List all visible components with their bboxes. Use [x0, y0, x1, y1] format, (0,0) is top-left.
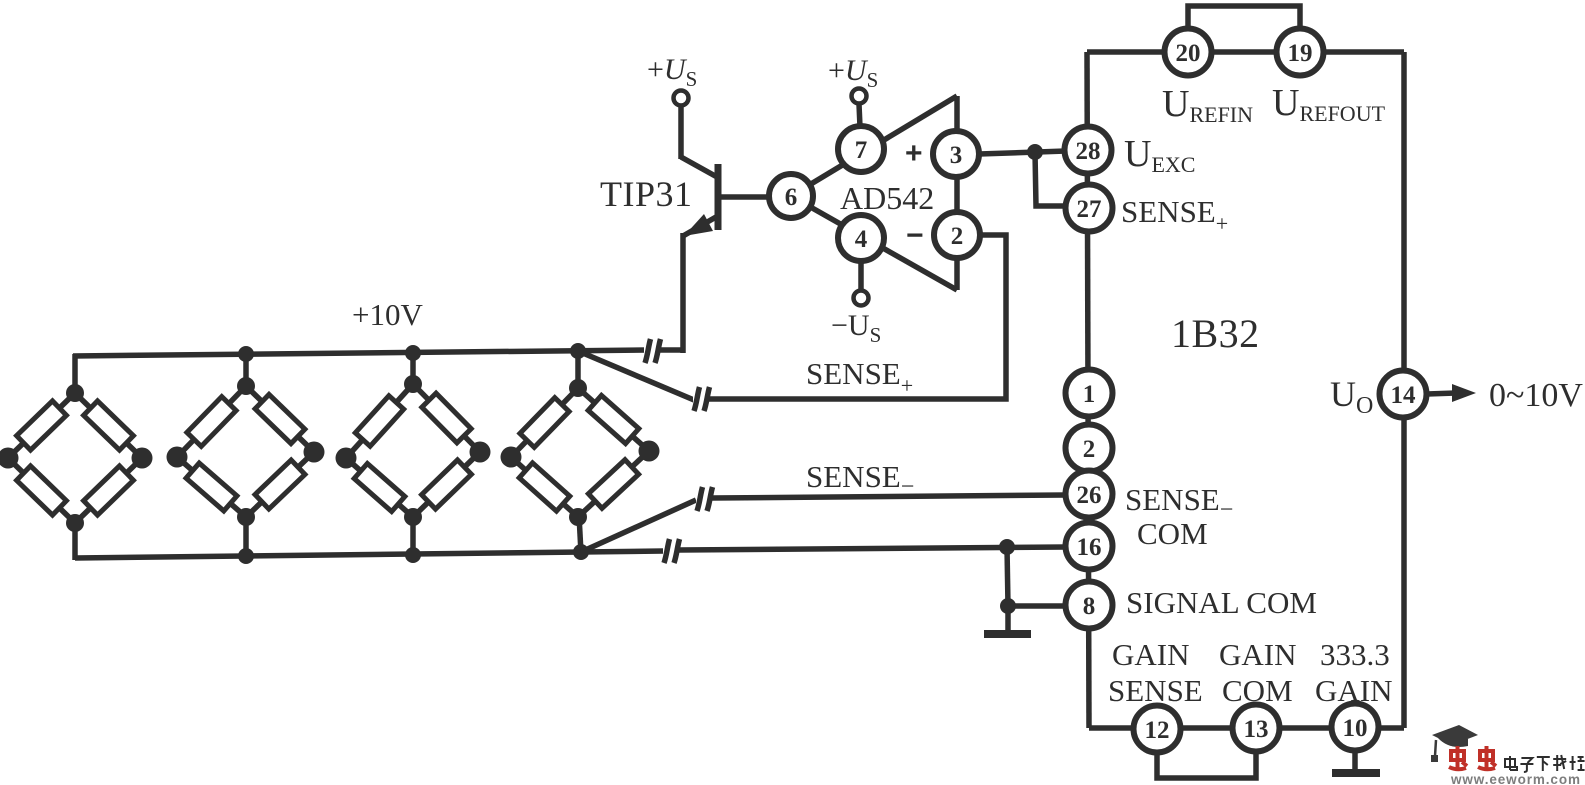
pin 13 GAIN COM	[1233, 705, 1280, 752]
pin 10 GAIN	[1332, 704, 1379, 751]
svg-text:20: 20	[1176, 40, 1201, 67]
svg-text:2: 2	[951, 223, 964, 250]
svg-text:12: 12	[1145, 717, 1170, 744]
pin 27 SENSE+	[1066, 185, 1113, 232]
node output junction	[1027, 144, 1043, 160]
wire bridge B2 top stub	[243, 353, 249, 388]
wire external loop pin20-pin19	[1188, 6, 1300, 30]
cable break on COM	[663, 539, 680, 563]
wire down to ground	[1005, 606, 1011, 632]
svg-text:1: 1	[1083, 381, 1096, 408]
resistor B2 top-left arm	[187, 397, 236, 447]
resistor B1 top-right arm	[84, 401, 134, 450]
wire output arrow from pin 14	[1427, 393, 1456, 394]
wire strap junction to pin 27	[1035, 152, 1066, 206]
wire op-amp output (pin3) to UEXC pin 28	[979, 151, 1066, 154]
svg-text:2: 2	[1083, 436, 1096, 463]
terminal +Us (op-amp V+)	[852, 89, 867, 104]
svg-text:+: +	[905, 137, 923, 170]
resistor B1 top-left arm	[17, 401, 67, 450]
wire bridge B1 top stub	[72, 354, 78, 395]
op-amp pin circle 3 (+in)	[933, 131, 979, 177]
wire branch to pin 8	[1008, 603, 1066, 609]
node B4 output+ (right)	[639, 441, 660, 462]
svg-text:SENSE: SENSE	[1108, 673, 1203, 708]
pin 8 SIGNAL COM	[1066, 582, 1113, 629]
IC U2 1B32 outline	[1087, 52, 1404, 728]
wire bridge B3 bottom stub	[410, 515, 416, 556]
node B3 output- (left)	[336, 448, 357, 469]
wire pin10 to ground	[1352, 749, 1358, 772]
wire top rail after cable break to emitter riser	[658, 347, 685, 353]
node B2 excitation- (bottom)	[237, 508, 255, 526]
svg-text:6: 6	[785, 184, 798, 211]
wire bottom excitation rail	[75, 552, 583, 558]
pin 26 SENSE-	[1066, 471, 1113, 518]
cable break on +10V rail	[644, 339, 661, 363]
pin 2	[1066, 425, 1113, 472]
svg-text:4: 4	[855, 226, 868, 253]
svg-text:TIP31: TIP31	[600, 174, 693, 214]
ground (signal common)	[984, 630, 1031, 638]
pin 14 UO	[1380, 371, 1427, 418]
resistor B2 bottom-left arm	[186, 463, 237, 511]
resistor B3 top-right arm	[422, 393, 471, 443]
wire bridge B3 top stub	[410, 352, 416, 386]
pin 16 COM	[1066, 523, 1113, 570]
svg-text:GAIN: GAIN	[1219, 637, 1297, 672]
svg-text:−: −	[906, 219, 924, 252]
wire emitter riser (vertical up to TIP31 emitter)	[680, 233, 686, 353]
wire op-amp V- to terminal	[858, 262, 864, 290]
node B2 output- (left)	[167, 447, 188, 468]
op-amp pin circle 7 (V+)	[838, 126, 884, 172]
svg-text:www.eeworm.com: www.eeworm.com	[1450, 772, 1581, 785]
node signal-common junction	[1000, 598, 1016, 614]
wire +10V top excitation rail	[73, 350, 646, 356]
wire op-amp V+ to terminal	[859, 104, 860, 127]
op-amp pin circle 2 (-in)	[934, 212, 980, 258]
watermark eeworm logo	[1431, 725, 1478, 762]
resistor B3 bottom-right arm	[422, 460, 472, 509]
svg-text:10: 10	[1343, 715, 1368, 742]
wire SENSE+ horizontal run to op-amp inverting input	[709, 235, 1006, 399]
node B2 output+ (right)	[304, 442, 325, 463]
svg-text:GAIN: GAIN	[1315, 673, 1393, 708]
wire COM branch down to signal-common junction	[1007, 547, 1008, 606]
load-cell bridge B4	[501, 379, 660, 526]
node bottom rail / B2	[238, 548, 254, 564]
svg-text:16: 16	[1077, 534, 1102, 561]
node B2 excitation+ (top)	[237, 377, 255, 395]
wire external loop pin12-pin13	[1157, 750, 1256, 778]
node COM junction	[999, 539, 1015, 555]
node B4 excitation+ (top)	[569, 379, 587, 397]
node B1 output+ (right)	[132, 448, 153, 469]
svg-text:1B32: 1B32	[1171, 311, 1260, 356]
node B3 excitation+ (top)	[404, 375, 422, 393]
svg-text:SENSE−: SENSE−	[806, 459, 914, 500]
svg-text:COM: COM	[1137, 516, 1208, 551]
svg-text:14: 14	[1391, 382, 1417, 409]
svg-text:3: 3	[950, 142, 963, 169]
svg-text:19: 19	[1288, 40, 1313, 67]
resistor B2 top-right arm	[255, 394, 305, 443]
node top rail / B3	[405, 345, 421, 361]
wire SENSE- diagonal from B4 bottom node	[581, 500, 696, 552]
cable break on SENSE-	[696, 487, 713, 511]
load-cell bridge B1	[0, 384, 153, 532]
svg-text:0~10V: 0~10V	[1489, 377, 1583, 414]
node bottom rail / B3	[405, 547, 421, 563]
resistor B3 bottom-left arm	[354, 463, 405, 511]
svg-text:AD542: AD542	[840, 180, 934, 216]
node top rail / B2	[238, 346, 254, 362]
node B3 excitation- (bottom)	[404, 508, 422, 526]
ground (gain)	[1332, 769, 1380, 777]
wire bridge B2 bottom stub	[243, 515, 249, 557]
wire bridge B4 bottom stub	[579, 515, 581, 553]
svg-text:27: 27	[1077, 196, 1102, 223]
wire SENSE- horizontal run to pin 26	[712, 495, 1066, 498]
node B1 excitation- (bottom)	[66, 514, 84, 532]
pin 19 UREFOUT	[1277, 29, 1324, 76]
wire bridge B1 bottom stub	[72, 521, 78, 560]
resistor B1 bottom-right arm	[84, 466, 134, 515]
pin 12 GAIN SENSE	[1134, 706, 1181, 753]
svg-text:7: 7	[855, 137, 868, 164]
transistor Q1 TIP31	[681, 105, 770, 236]
svg-text:333.3: 333.3	[1320, 637, 1390, 672]
wire COM run to pin 16	[679, 547, 1066, 550]
op-amp pin circle 6 (output)	[769, 174, 813, 218]
svg-text:13: 13	[1244, 716, 1269, 743]
wire SENSE+ diagonal from B4 top node	[578, 351, 694, 400]
resistor B2 bottom-right arm	[255, 460, 305, 509]
cable break on SENSE+	[693, 387, 710, 411]
resistor B4 top-left arm	[520, 398, 569, 448]
resistor B4 bottom-left arm	[519, 463, 570, 511]
op-amp pin circle 4 (V-)	[838, 215, 884, 261]
terminal +Us (collector)	[674, 91, 689, 106]
node B3 output+ (right)	[470, 442, 491, 463]
svg-text:GAIN: GAIN	[1112, 637, 1190, 672]
resistor B4 top-right arm	[588, 395, 639, 443]
node B1 output- (left)	[0, 448, 19, 469]
pin 20 UREFIN	[1165, 29, 1212, 76]
op-amp U1 AD542 triangle	[791, 96, 957, 290]
svg-text:COM: COM	[1222, 673, 1293, 708]
load-cell bridge B3	[336, 375, 491, 526]
wire bridge B4 top stub	[575, 351, 581, 390]
load-cell bridge B2	[167, 377, 325, 526]
wire COM run from B4 bottom node	[581, 551, 664, 552]
node bottom rail / B4	[573, 544, 589, 560]
resistor B3 top-left arm	[355, 396, 403, 446]
node B4 excitation- (bottom)	[569, 508, 587, 526]
resistor B1 bottom-left arm	[17, 466, 67, 515]
node B4 output- (left)	[501, 447, 522, 468]
resistor B4 bottom-right arm	[588, 460, 638, 509]
pin 28 UEXC	[1065, 127, 1112, 174]
terminal -Us (op-amp V-)	[854, 291, 869, 306]
pin 1	[1066, 370, 1113, 417]
svg-text:28: 28	[1076, 138, 1101, 165]
svg-text:8: 8	[1083, 593, 1096, 620]
svg-text:SIGNAL COM: SIGNAL COM	[1126, 585, 1317, 620]
svg-text:+10V: +10V	[352, 297, 423, 332]
node top rail / B4	[570, 343, 586, 359]
node B1 excitation+ (top)	[66, 384, 84, 402]
svg-text:26: 26	[1077, 482, 1102, 509]
